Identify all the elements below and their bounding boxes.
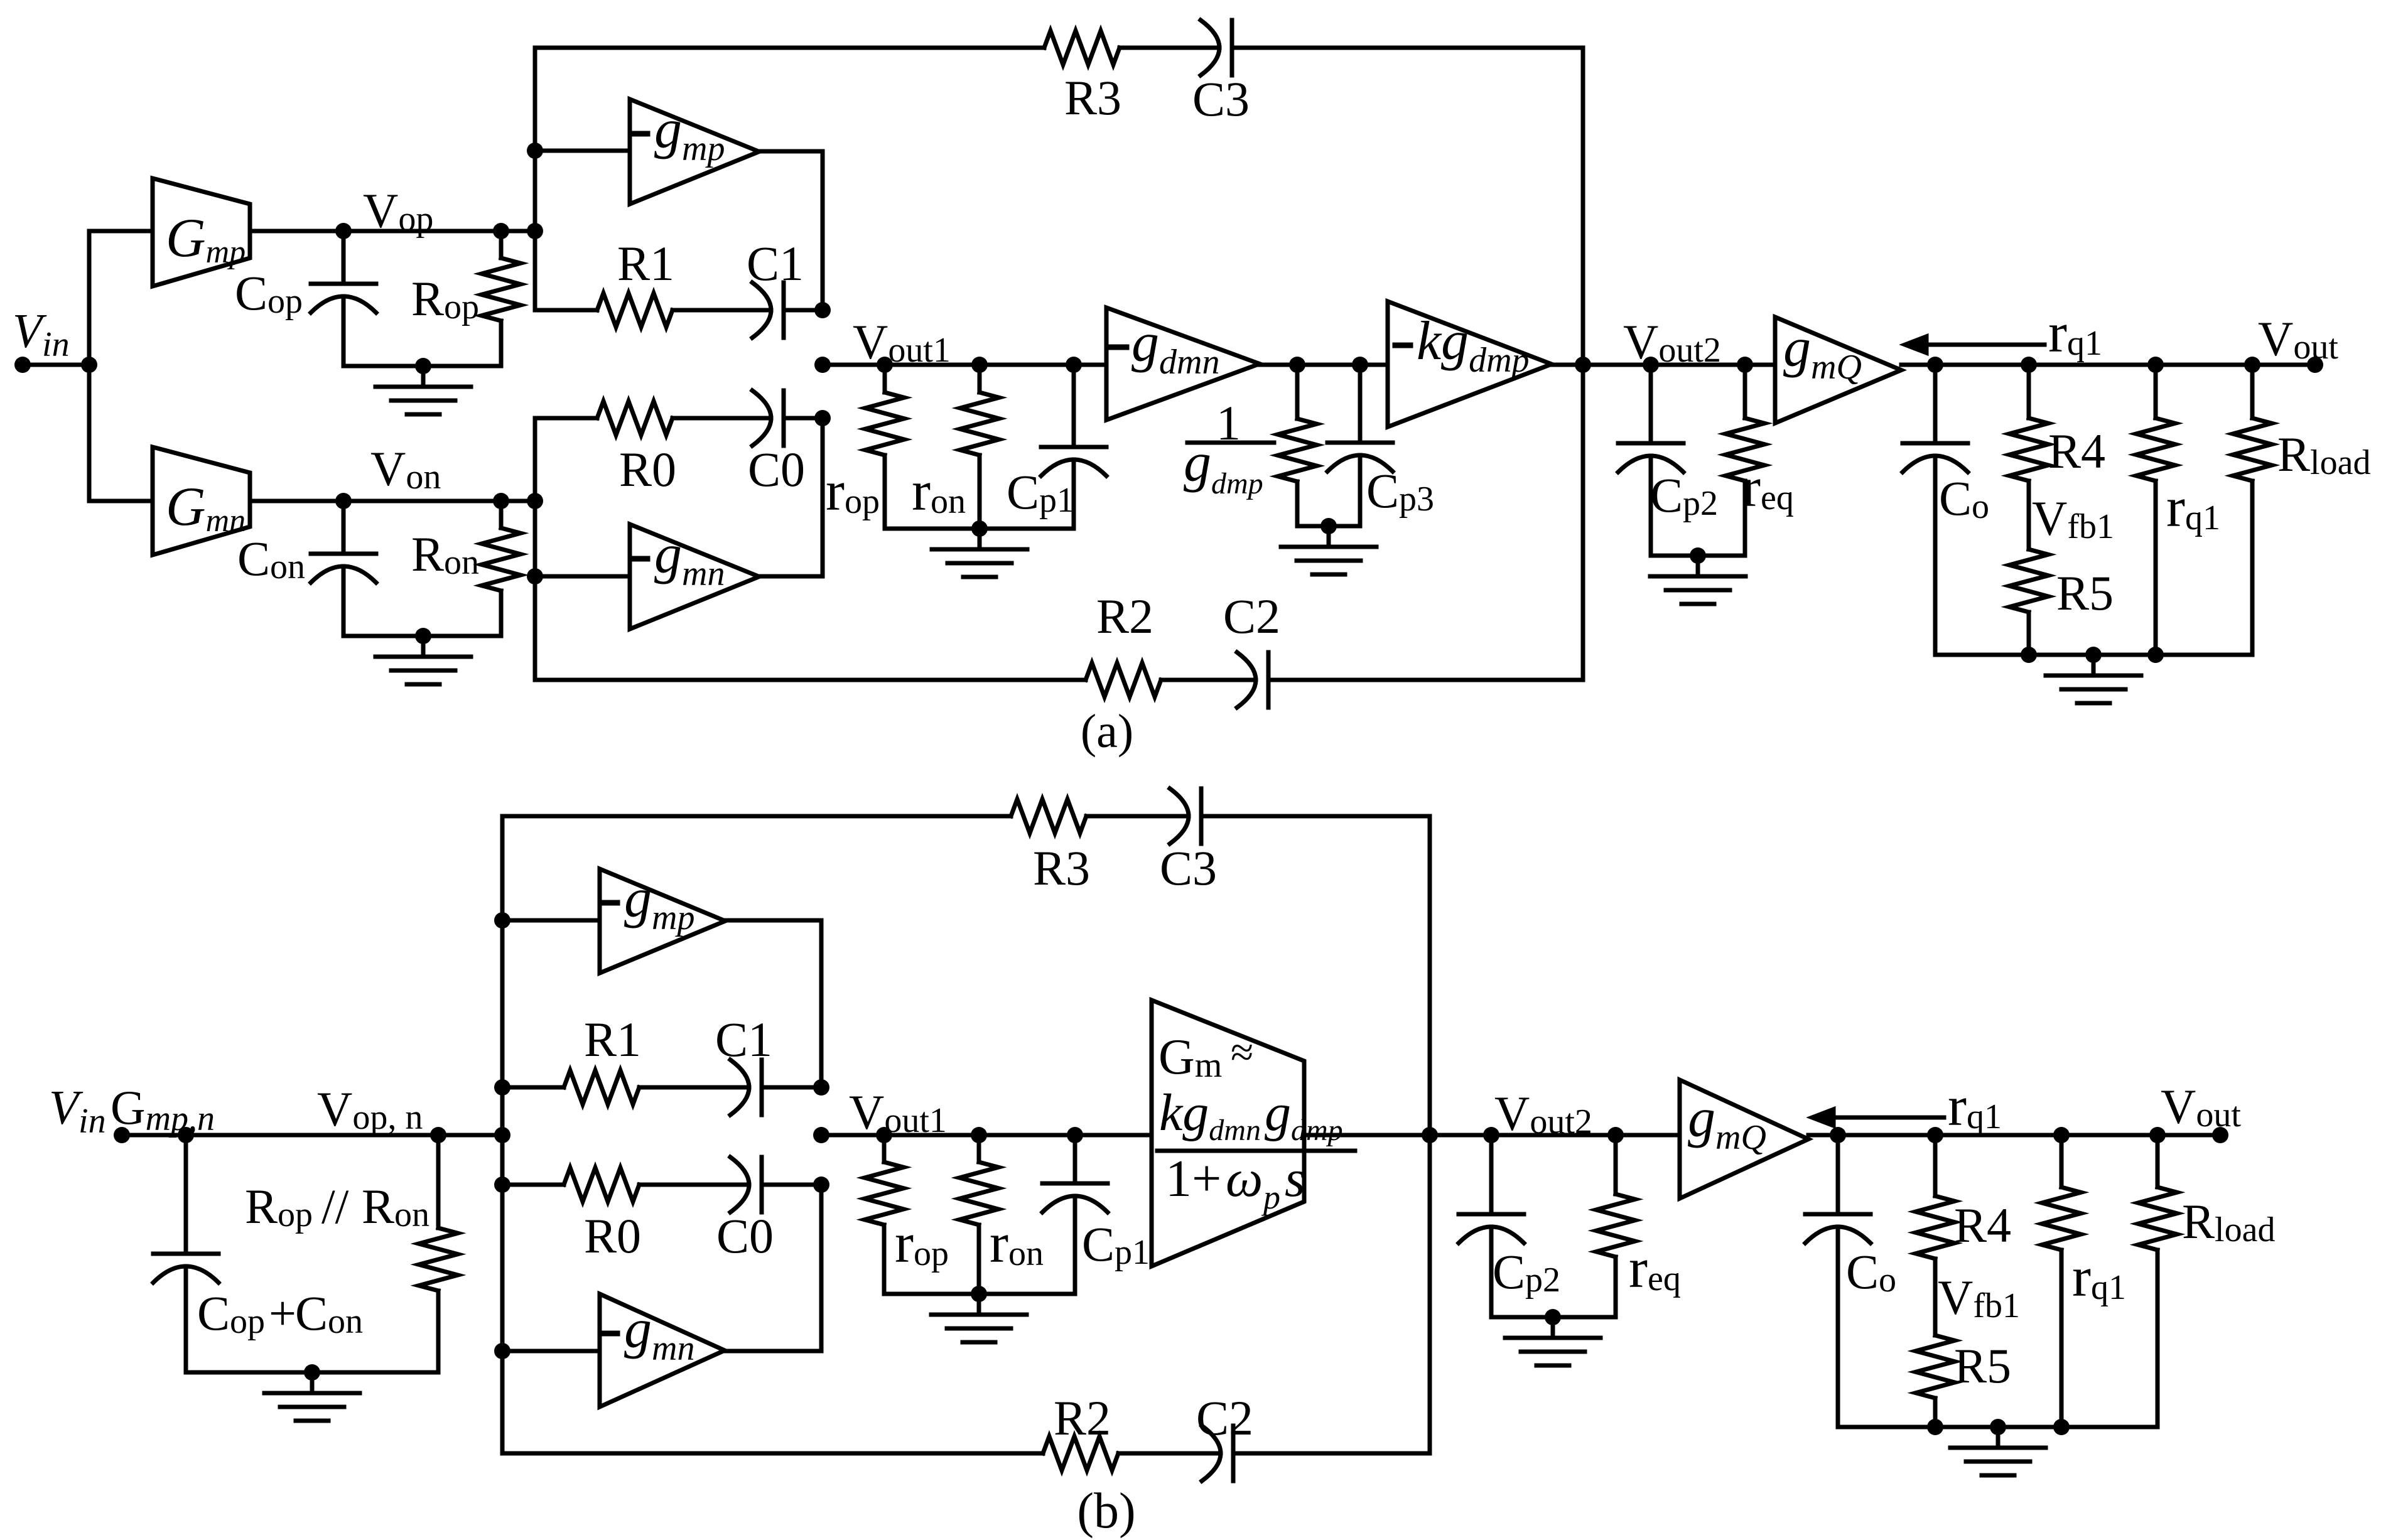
resistor ron <box>978 365 982 392</box>
ground below 1/gdmp Cp3 <box>1327 526 1331 547</box>
ground below Cop/Rop <box>421 366 426 387</box>
wire Cp2 req ground rail <box>1651 554 1745 558</box>
wire Vin junction up to Gmp input <box>89 231 153 365</box>
wire b R1 to C1 <box>639 1085 749 1090</box>
capacitor Cp1 b <box>1073 1135 1077 1183</box>
node R5 bottom junction <box>2021 647 2037 663</box>
op-amp -gmn <box>630 524 759 629</box>
wire -gmp output <box>759 151 823 310</box>
svg-text:R4: R4 <box>2048 424 2105 478</box>
ground below rop/ron/Cp1 <box>978 529 982 549</box>
wire b Gm output to right rail <box>1304 1133 1430 1138</box>
transconductance amp Gmn <box>153 447 250 555</box>
minus sign of -gdmn <box>1111 345 1126 350</box>
resistor R4 b <box>1933 1135 1938 1196</box>
node b Cp2 tap <box>1483 1127 1499 1143</box>
resistor R3 <box>1044 31 1120 65</box>
svg-text:C1: C1 <box>715 1012 772 1067</box>
svg-text:R3: R3 <box>1064 70 1121 125</box>
node CopCon branch <box>178 1127 194 1143</box>
node rop/ron ground junction <box>971 520 988 537</box>
wire b R1 lead <box>502 1085 564 1090</box>
resistor Rop//Ron <box>436 1135 441 1228</box>
svg-text:R2: R2 <box>1054 1391 1111 1445</box>
capacitor Co b <box>1836 1135 1840 1214</box>
node Rload tap <box>2244 357 2260 373</box>
wire b box bottom rail left part <box>502 1451 1043 1456</box>
wire b C2 to right rail <box>1233 1451 1430 1456</box>
resistor Ron <box>499 501 504 528</box>
node req tap <box>1737 357 1753 373</box>
wire R3 to C3 <box>1120 46 1219 50</box>
op-amp -gmp <box>630 99 759 204</box>
wire right rail to gmQ <box>1583 363 1775 367</box>
wire R1 lead from rail <box>535 308 597 313</box>
node b ron tap <box>971 1127 987 1143</box>
resistor rq1 b vertical <box>2060 1135 2064 1187</box>
svg-text:s: s <box>1285 1150 1305 1208</box>
wire b C0 to junction <box>762 1183 821 1187</box>
node ron tap <box>971 357 988 373</box>
svg-text:C3: C3 <box>1192 72 1250 126</box>
arrow rq1 b current direction <box>1831 1116 1944 1120</box>
resistor 1/gdmp <box>1295 365 1300 419</box>
node rop tap <box>877 357 893 373</box>
wire C1 to Vout1 line <box>784 308 823 313</box>
node b R0 tap <box>494 1177 510 1193</box>
svg-text:R0: R0 <box>584 1209 641 1263</box>
node Cp3 tap <box>1352 357 1368 373</box>
wire b -gmn input <box>502 1349 600 1354</box>
node b rop/ron ground junction <box>971 1286 987 1302</box>
node b rq1 bottom junction <box>2053 1419 2070 1435</box>
wire b rop ron Cp1 ground rail <box>884 1292 1075 1296</box>
wire -gdmn output <box>1260 363 1388 367</box>
resistor ron b <box>977 1135 981 1162</box>
node Vin junction <box>81 357 97 373</box>
node Rop top <box>493 223 509 239</box>
wire b output ground rail <box>1838 1425 2157 1430</box>
wire Cop Rop ground rail <box>343 364 501 369</box>
minus sign of -gmn b <box>602 1331 617 1337</box>
node Von <box>335 493 352 509</box>
resistor R3 b <box>1011 799 1086 833</box>
svg-text:1+: 1+ <box>1165 1150 1221 1208</box>
minus sign of -gmp b <box>602 900 617 906</box>
node Von on rail <box>527 493 543 509</box>
transconductance amp Gmp <box>153 178 250 286</box>
wire b Vout1 row <box>821 1133 1152 1138</box>
svg-text:(b): (b) <box>1077 1483 1135 1539</box>
capacitor C1 b <box>730 1060 749 1115</box>
node b Rload tap <box>2149 1127 2166 1143</box>
node C0 junction <box>814 410 831 426</box>
capacitor Co <box>1933 365 1938 443</box>
svg-text:ω: ω <box>1226 1150 1263 1208</box>
node RopRon branch <box>430 1127 446 1143</box>
op-amp -gmp b <box>600 869 725 973</box>
resistor R5 b <box>1933 1318 1938 1335</box>
node Cop/Rop ground junction <box>415 358 431 374</box>
wire b R2 to C2 <box>1118 1451 1221 1456</box>
node -gmp input tap <box>527 143 543 159</box>
node Vin Gm terminal <box>114 1127 130 1143</box>
amplifier block Gm <box>1152 1000 1304 1266</box>
wire Gmn output to Von node <box>250 499 535 503</box>
capacitor Cp2 b <box>1489 1135 1494 1214</box>
op-amp -kgdmp <box>1388 301 1552 427</box>
op-amp -gdmn <box>1106 308 1260 420</box>
node rq1 bottom junction <box>2147 647 2164 663</box>
wire R1 to C1 <box>672 308 771 313</box>
ground below CopCon <box>310 1372 315 1393</box>
capacitor Cp2 <box>1649 365 1653 443</box>
wire input row <box>122 1133 502 1138</box>
svg-text:C0: C0 <box>716 1209 774 1263</box>
resistor rop b <box>882 1135 887 1162</box>
wire box right rail <box>1581 48 1585 680</box>
minus sign of -kgdmp <box>1395 343 1410 348</box>
resistor R2 b <box>1043 1436 1118 1470</box>
resistor Rload <box>2250 365 2255 418</box>
node Cp2/req ground junction <box>1690 547 1706 564</box>
node b right rail junction <box>1422 1127 1438 1143</box>
wire gmQ output to Vout <box>1901 363 2315 367</box>
node 1/gdmp tap <box>1289 357 1305 373</box>
resistor Rop <box>499 231 504 258</box>
capacitor C2 <box>1237 652 1256 708</box>
wire b R0 to C0 <box>639 1183 749 1187</box>
resistor req <box>1743 365 1747 418</box>
svg-text:C2: C2 <box>1223 589 1280 643</box>
node b req tap <box>1607 1127 1624 1143</box>
node b Cp2/req ground junction <box>1545 1309 1561 1325</box>
wire b C3 to right rail <box>1201 814 1430 819</box>
wire Con Ron ground rail <box>343 634 501 638</box>
svg-text:C3: C3 <box>1160 841 1217 895</box>
svg-text:R4: R4 <box>1954 1198 2011 1252</box>
wire b R0 lead <box>502 1183 564 1187</box>
node b -gmn tap <box>494 1343 510 1359</box>
wire b right rail to gmQ <box>1430 1133 1680 1138</box>
wire left rail upper segment <box>533 48 537 310</box>
op-amp gmQ b <box>1680 1080 1808 1198</box>
ground below b output rail <box>1996 1427 2001 1448</box>
wire rop ron Cp1 ground rail <box>885 527 1074 531</box>
svg-text://: // <box>321 1179 349 1234</box>
wire b box left rail <box>500 816 505 1453</box>
node Con/Ron ground junction <box>415 628 431 644</box>
svg-text:(a): (a) <box>1081 705 1133 758</box>
node Ron top <box>493 493 509 509</box>
wire b R3 to C3 <box>1086 814 1189 819</box>
svg-text:p: p <box>1261 1178 1280 1216</box>
wire Gmp output to Vop node <box>250 229 535 234</box>
resistor R0 b <box>564 1168 639 1202</box>
capacitor C1 <box>752 283 771 338</box>
node b -gmp tap <box>494 912 510 929</box>
node b rq1 tap <box>2053 1127 2070 1143</box>
wire Vin to input junction <box>23 363 89 367</box>
resistor R0 <box>597 401 672 435</box>
node input on rail <box>494 1127 510 1143</box>
svg-text:R3: R3 <box>1033 841 1090 895</box>
capacitor Cp1 <box>1072 365 1076 447</box>
op-amp gmQ <box>1775 317 1901 423</box>
wire b -gmn output <box>725 1185 821 1351</box>
node Vop on rail <box>527 223 543 239</box>
ground below Con/Ron <box>421 636 426 657</box>
resistor rop <box>883 365 887 392</box>
node R4 tap <box>2021 357 2037 373</box>
node b Vout1 <box>813 1127 829 1143</box>
ground below b rop/ron/Cp1 <box>977 1294 981 1315</box>
minus sign of -gmn <box>632 556 647 562</box>
capacitor C3 <box>1201 20 1219 75</box>
wire -gmn output <box>759 418 823 576</box>
wire b gmQ output to Vout <box>1808 1133 2220 1138</box>
resistor rq1 vertical <box>2154 365 2158 418</box>
wire -kgdmp output to right rail <box>1552 363 1583 367</box>
wire R0 lead from rail <box>535 416 597 421</box>
capacitor C0 b <box>730 1157 749 1212</box>
wire Vout1 row to -gdmn <box>823 363 1106 367</box>
wire CopCon RopRon ground rail <box>186 1370 438 1375</box>
node Cp1 tap <box>1066 357 1082 373</box>
capacitor Cop+Con <box>184 1135 188 1254</box>
node Co tap <box>1927 357 1943 373</box>
capacitor Cop <box>342 231 346 284</box>
wire b C1 to junction <box>762 1085 821 1090</box>
wire R0 to C0 <box>672 416 771 421</box>
wire C3 to right rail <box>1232 46 1583 50</box>
node b output ground junction <box>1990 1419 2006 1435</box>
node Vout1 <box>814 357 831 373</box>
wire 1/gdmp Cp3 ground rail <box>1297 524 1360 529</box>
resistor R1 <box>597 293 672 327</box>
resistor Rload b <box>2156 1135 2160 1187</box>
wire R2 to C2 <box>1161 678 1256 682</box>
resistor R5 <box>2027 546 2031 549</box>
resistor R4 <box>2027 365 2031 418</box>
svg-text:C0: C0 <box>748 442 805 497</box>
svg-text:≈: ≈ <box>1231 1030 1253 1075</box>
wire box top rail left part <box>535 46 1044 50</box>
svg-text:R2: R2 <box>1096 589 1153 643</box>
node b R1 tap <box>494 1079 510 1096</box>
node Cp3 ground junction <box>1320 518 1337 534</box>
wire b Cp2 req ground rail <box>1491 1315 1616 1320</box>
svg-text:R1: R1 <box>617 236 674 291</box>
node b C0 junction <box>813 1177 829 1193</box>
resistor req b <box>1614 1135 1618 1194</box>
svg-text:R5: R5 <box>2056 566 2114 620</box>
wire -gmn input <box>535 574 630 579</box>
node CopCon ground junction <box>304 1364 320 1381</box>
node b R5 bottom junction <box>1927 1419 1943 1435</box>
node right rail junction <box>1575 357 1591 373</box>
node b R4 tap <box>1927 1127 1943 1143</box>
ground below output rail <box>2092 655 2096 676</box>
ground below b Cp2/req <box>1551 1317 1555 1338</box>
svg-text:R0: R0 <box>619 442 676 497</box>
node Vin terminal <box>14 357 31 373</box>
capacitor C3 b <box>1170 789 1189 844</box>
node b rop tap <box>876 1127 892 1143</box>
resistor R1 b <box>564 1070 639 1104</box>
node b Cp1 tap <box>1067 1127 1083 1143</box>
wire -gmp input <box>535 149 630 153</box>
wire b -gmp input <box>502 918 600 923</box>
wire box bottom rail left part <box>535 678 1086 682</box>
wire left rail lower segment <box>533 418 537 680</box>
node Vop <box>335 223 352 239</box>
node Cp2 tap <box>1643 357 1659 373</box>
wire b box top rail left part <box>502 814 1011 819</box>
fraction bar of Gm <box>1157 1149 1355 1153</box>
node Vout terminal <box>2307 357 2323 373</box>
svg-text:C1: C1 <box>747 236 804 291</box>
capacitor Con <box>342 501 346 554</box>
wire C0 to Vout1 line <box>784 416 823 421</box>
svg-text:C2: C2 <box>1196 1391 1253 1445</box>
wire b box right rail <box>1428 816 1432 1453</box>
node b Vout terminal <box>2212 1127 2228 1143</box>
capacitor Cp3 <box>1358 365 1363 443</box>
node rq1 tap <box>2147 357 2164 373</box>
node output ground junction <box>2085 647 2102 663</box>
ground below Cp2/req <box>1696 556 1700 576</box>
node C1 junction <box>814 302 831 318</box>
node b Co tap <box>1830 1127 1846 1143</box>
wire output ground rail <box>1935 653 2252 657</box>
capacitor C0 <box>752 390 771 446</box>
op-amp -gmn b <box>600 1294 725 1407</box>
wire b -gmp output <box>725 920 821 1087</box>
arrow rq1 current direction <box>1924 343 2044 347</box>
fraction bar of 1/gdmp <box>1187 441 1274 445</box>
capacitor C2 b <box>1202 1426 1221 1481</box>
svg-text:R5: R5 <box>1954 1338 2011 1393</box>
svg-text:+: + <box>269 1286 296 1340</box>
wire Vin junction down to Gmn input <box>89 365 153 501</box>
svg-text:R1: R1 <box>584 1012 641 1067</box>
resistor R2 <box>1086 663 1161 697</box>
wire C2 to right rail <box>1268 678 1583 682</box>
node b C1 junction <box>813 1079 829 1096</box>
node -gmn input tap <box>527 568 543 584</box>
minus sign of -gmp <box>632 131 647 137</box>
